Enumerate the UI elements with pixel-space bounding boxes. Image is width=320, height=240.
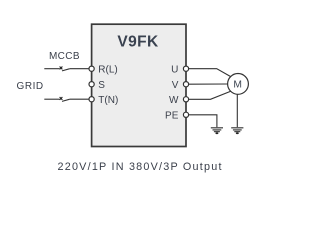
terminal S <box>89 82 94 87</box>
svg-text:V: V <box>172 80 179 91</box>
wire MCCB pole 1 to terminal R(L) <box>70 68 89 70</box>
svg-text:V9FK: V9FK <box>117 34 159 51</box>
terminal V <box>183 82 188 87</box>
pin label PE <box>165 111 179 122</box>
pin label R(L) <box>98 65 117 76</box>
wire PE to earth <box>189 115 217 127</box>
label V9FK <box>117 34 159 51</box>
wire motor to earth <box>236 94 238 127</box>
pin label V <box>172 80 179 91</box>
wire MCCB pole 2 to terminal T(N) <box>70 98 89 100</box>
wire grid line N input <box>44 98 59 100</box>
wire U to motor <box>189 69 231 77</box>
svg-text:S: S <box>98 80 105 91</box>
pin label S <box>98 80 105 91</box>
inverter U1 (V9FK drive) body <box>92 24 186 146</box>
terminal T(N) <box>89 97 94 102</box>
motor M <box>228 74 249 95</box>
svg-text:R(L): R(L) <box>98 65 117 76</box>
svg-text:W: W <box>169 95 179 106</box>
caption 220V/1P IN 380V/3P Output <box>58 161 223 173</box>
wire W to motor <box>189 91 231 99</box>
pin label T(N) <box>98 95 118 106</box>
svg-text:M: M <box>233 80 242 91</box>
ground (PE earth) <box>211 128 223 134</box>
svg-text:U: U <box>171 65 178 76</box>
breaker MCCB pole 2 <box>60 97 70 101</box>
svg-text:GRID: GRID <box>17 81 44 92</box>
wire grid line L input <box>44 68 59 70</box>
svg-text:220V/1P IN 380V/3P Output: 220V/1P IN 380V/3P Output <box>58 161 223 173</box>
wire V to motor <box>189 83 228 85</box>
pin label W <box>169 95 179 106</box>
label GRID <box>17 81 44 92</box>
terminal W <box>183 97 188 102</box>
svg-text:MCCB: MCCB <box>49 51 80 62</box>
breaker MCCB pole 1 <box>60 67 70 71</box>
terminal U <box>183 66 188 71</box>
pin label U <box>171 65 178 76</box>
label MCCB <box>49 51 80 62</box>
terminal R(L) <box>89 66 94 71</box>
ground (motor earth) <box>231 128 243 134</box>
svg-text:T(N): T(N) <box>98 95 118 106</box>
terminal PE <box>183 112 188 117</box>
svg-text:PE: PE <box>165 111 179 122</box>
